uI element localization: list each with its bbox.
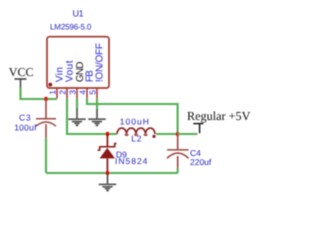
node junction output bbox=[175, 132, 179, 136]
wire inductor to output node bbox=[156, 133, 178, 135]
pin 4 FB stub bbox=[86, 88, 88, 99]
wire Vout to inductor bbox=[67, 99, 117, 135]
svg-text:3: 3 bbox=[68, 90, 78, 95]
ground symbol under pin 3 bbox=[68, 109, 85, 127]
pin 2 Vout stub bbox=[66, 88, 68, 99]
svg-text:100uH: 100uH bbox=[120, 116, 150, 126]
wire pin5 to ground bbox=[96, 99, 98, 111]
svg-text:IN5824: IN5824 bbox=[115, 156, 148, 166]
capacitor C3 bbox=[14, 99, 56, 138]
svg-text:1: 1 bbox=[48, 90, 58, 95]
svg-text:!ON/OFF: !ON/OFF bbox=[95, 43, 106, 82]
IC U1 LM2596-5.0 body bbox=[47, 9, 109, 88]
wire output to label bbox=[178, 133, 198, 135]
inductor L2 100uH bbox=[117, 116, 156, 143]
wire C4 to bottom rail bbox=[177, 168, 179, 173]
pin 5 ON/OFF stub bbox=[96, 88, 98, 99]
svg-text:LM2596-5.0: LM2596-5.0 bbox=[50, 23, 92, 32]
wire C3 to bottom rail bbox=[45, 138, 47, 173]
wire pin3 to ground bbox=[76, 99, 78, 110]
label Regular +5V bbox=[187, 109, 251, 133]
wire FB net bbox=[87, 99, 178, 135]
svg-text:U1: U1 bbox=[73, 9, 84, 19]
ground symbol under pin 5 bbox=[88, 110, 105, 127]
node junction diode tap bbox=[105, 132, 109, 136]
svg-text:C3: C3 bbox=[19, 113, 31, 123]
node junction diode to rail bbox=[105, 171, 109, 175]
svg-text:100uf: 100uf bbox=[14, 122, 37, 132]
pin 3 GND stub bbox=[76, 88, 78, 99]
svg-text:2: 2 bbox=[58, 90, 68, 95]
svg-text:220uf: 220uf bbox=[190, 157, 212, 167]
diode D9 IN5824 bbox=[98, 134, 149, 173]
ground symbol bottom bbox=[99, 173, 116, 191]
svg-text:VCC: VCC bbox=[9, 65, 34, 79]
svg-text:4: 4 bbox=[78, 90, 88, 95]
svg-text:L2: L2 bbox=[131, 134, 142, 144]
svg-text:5: 5 bbox=[88, 90, 98, 95]
svg-text:Regular +5V: Regular +5V bbox=[187, 109, 251, 123]
node junction at C3 tap bbox=[44, 97, 48, 101]
wire bottom rail bbox=[46, 172, 178, 174]
wire VCC to Vin bbox=[21, 88, 58, 100]
capacitor C4 bbox=[167, 134, 212, 169]
supply VCC bbox=[9, 65, 34, 88]
pin 1 Vin stub bbox=[56, 88, 58, 99]
svg-text:Vout: Vout bbox=[64, 60, 75, 82]
